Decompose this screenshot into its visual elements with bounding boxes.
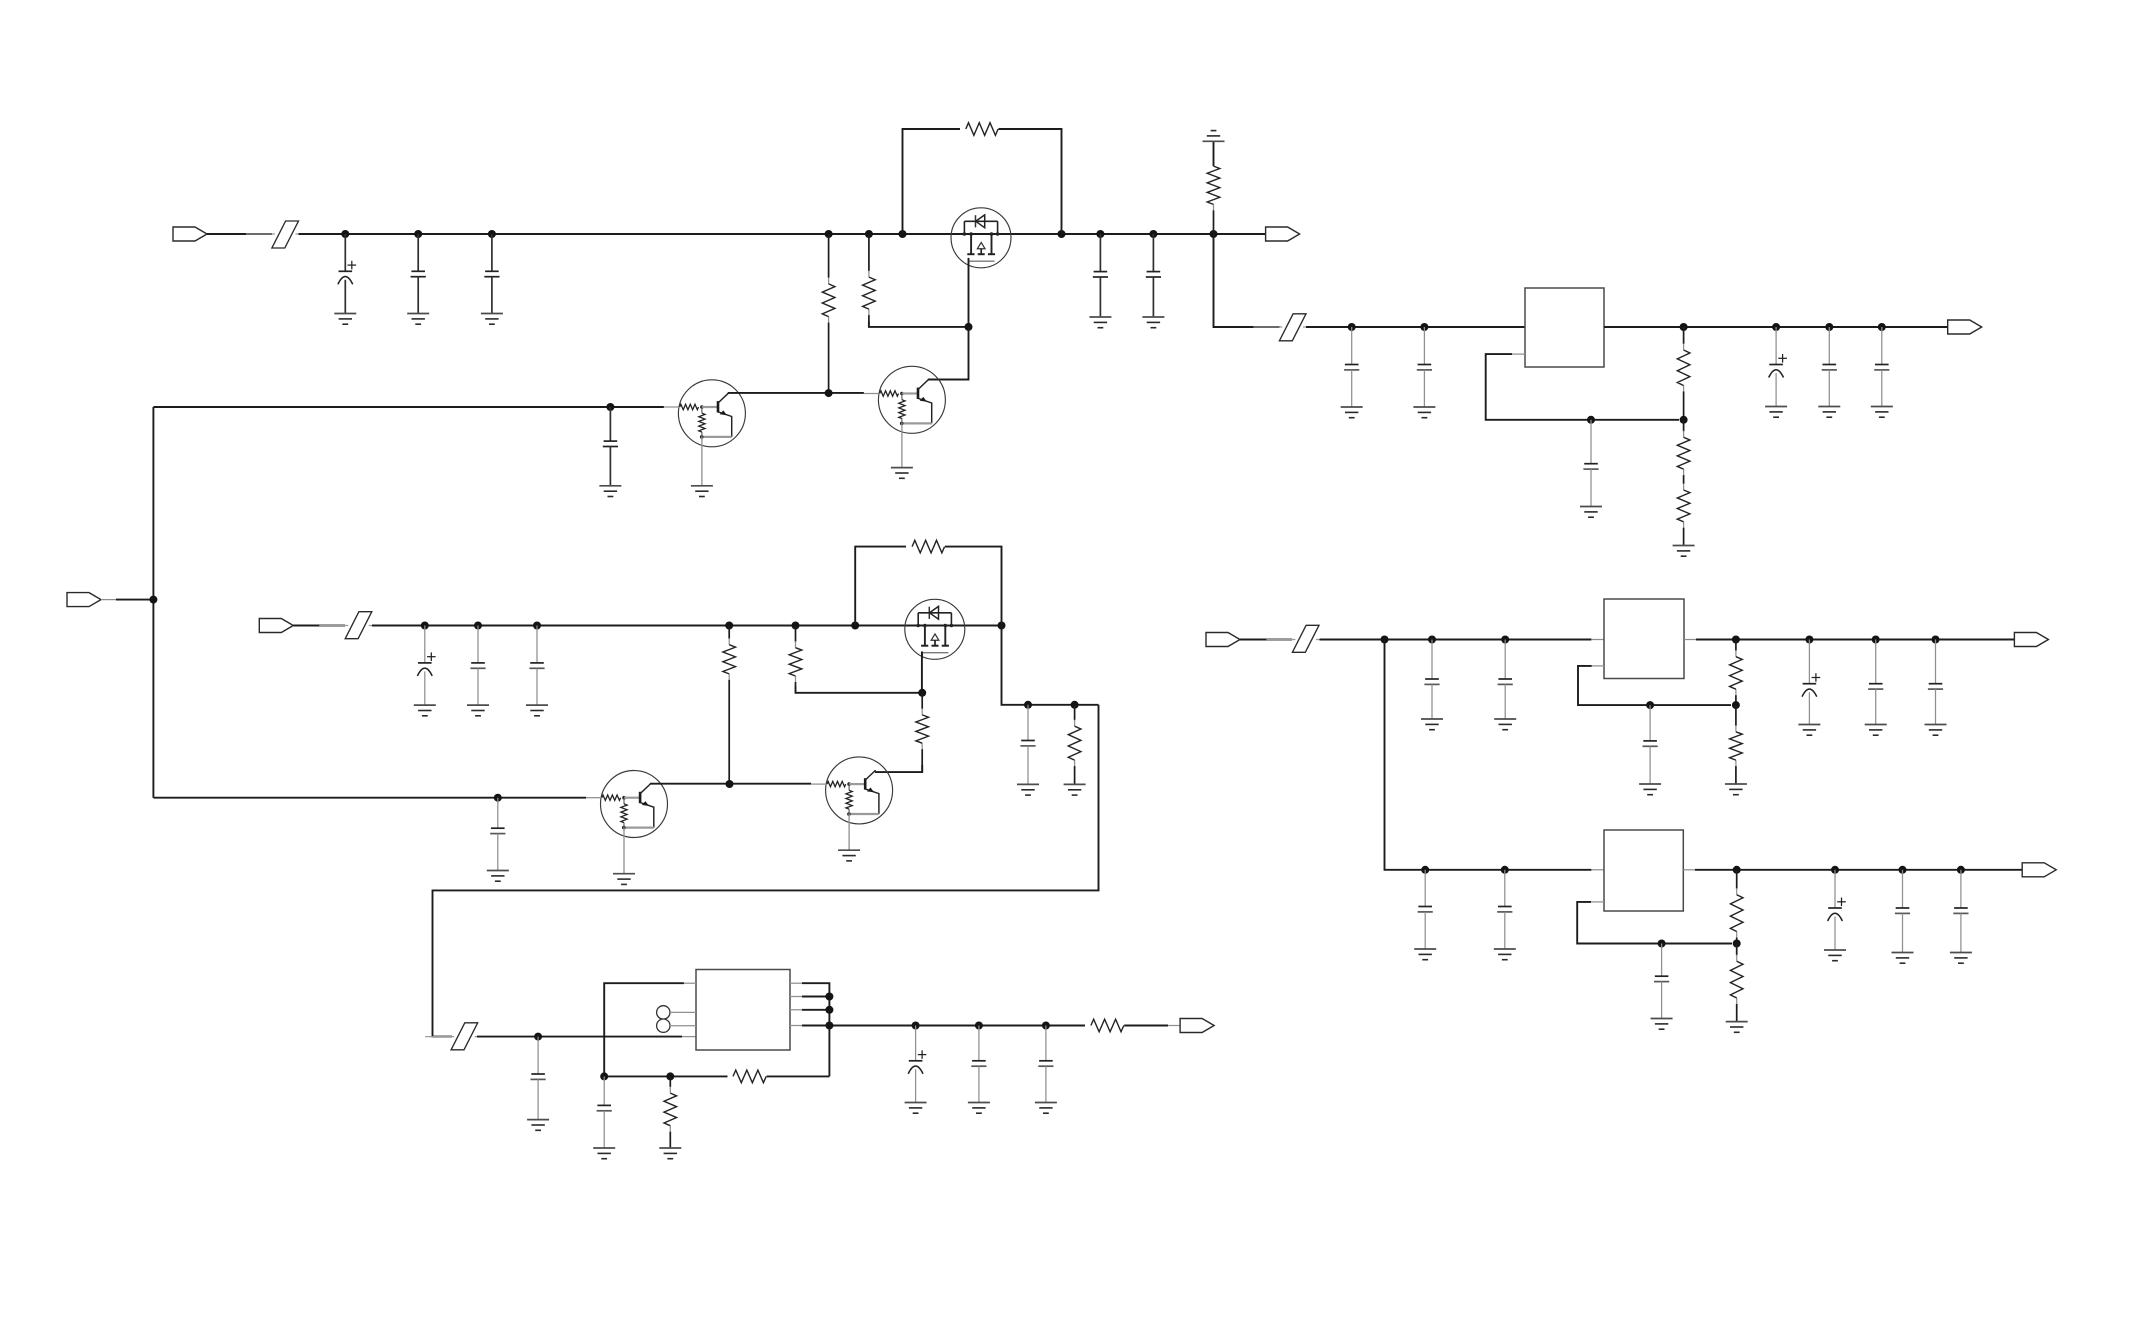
junction LED out A (912, 1022, 920, 1030)
pin stub U2 pin1 right (790, 982, 802, 984)
wire LED input rail (477, 1036, 682, 1038)
wire feedback loop 2 right (945, 547, 1002, 626)
wire U3 feedback (1578, 666, 1731, 705)
resistor R13 (664, 1076, 677, 1148)
wire mid out drop (1002, 626, 1099, 705)
resistor R10 (789, 626, 802, 687)
capacitor C3 (484, 234, 499, 314)
ground R13 ground (659, 1148, 681, 1159)
capacitor C2 (411, 234, 426, 314)
capacitor C32 (polarized) (1828, 870, 1846, 950)
junction divider2 mid (1732, 701, 1740, 709)
junction mid rail D (725, 622, 733, 630)
ground C13 ground (414, 705, 436, 716)
resistor R4 (divider top) (1677, 327, 1690, 420)
capacitor C26 (polarized) (1802, 640, 1820, 725)
ground C7 ground (1341, 407, 1363, 418)
capacitor C10 (polarized) (1769, 327, 1787, 407)
junction divider3 mid (1733, 940, 1741, 948)
ground C14 ground (467, 705, 489, 716)
junction LED out B (975, 1022, 983, 1030)
capacitor C23 (1424, 640, 1439, 720)
capacitor C11 (1822, 327, 1837, 407)
junction fb cap node 3 (1658, 940, 1666, 948)
wire fb to pin column (767, 1075, 830, 1077)
junction rail A2 (414, 230, 422, 238)
ground divider3 ground (1726, 1022, 1748, 1033)
regulator U3 (1604, 599, 1684, 679)
ground R12 ground (1064, 784, 1086, 795)
wire wrap wire to LED circuit (433, 705, 1099, 1037)
junction divider2 top (1732, 636, 1740, 644)
pin stub U2 pin2 right (790, 996, 802, 998)
junction reg2-in A (1381, 636, 1389, 644)
resistor R11 (gate series) (916, 693, 929, 772)
port P6 LED output (1180, 1019, 1214, 1033)
capacitor C18 (531, 1037, 546, 1120)
wire enable net vertical (152, 407, 154, 798)
Q1 emitter lead (701, 436, 703, 486)
wire enable base wire (153, 406, 664, 408)
capacitor C1 (polarized bulk) (338, 234, 356, 314)
port P8 VOUT3 (2014, 633, 2048, 647)
junction reg3-in A (1421, 866, 1429, 874)
junction gate node (965, 323, 973, 331)
capacitor C7 (1344, 327, 1359, 407)
capacitor C4 (603, 407, 618, 486)
ground divider2 ground (1725, 784, 1747, 795)
ground C16 ground (487, 871, 509, 882)
resistor R6 (divider bottom a) (1677, 420, 1690, 480)
ground Q1 ground (691, 486, 713, 497)
junction out B (1149, 230, 1157, 238)
ground Q2 ground (891, 468, 913, 479)
capacitor C31 (feedback) (1654, 944, 1669, 1019)
capacitor C20 (polarized) (908, 1026, 926, 1103)
transistor Q4 (digital BJT with base resistors) (811, 757, 893, 824)
pin stub U2 input pin (682, 1036, 696, 1038)
PMOS transistor M1 load switch (951, 208, 1011, 268)
ground Q4 ground (838, 850, 860, 861)
wire VIN3 to bus entry (1240, 639, 1292, 641)
junction feedback right (1058, 230, 1066, 238)
junction divider mid node (1680, 416, 1688, 424)
junction out A (1096, 230, 1104, 238)
junction reg-out A (1772, 323, 1780, 331)
pin stub U2 pin3 right (790, 1009, 802, 1011)
wire branch to regulator (1214, 234, 1280, 327)
resistor R16 (divider top) (1730, 640, 1743, 706)
ground C31 ground (1651, 1019, 1673, 1030)
capacitor C15 (529, 626, 544, 706)
port P7 VIN3 (1206, 633, 1240, 647)
port P4 enable input (67, 593, 101, 607)
wire gate node to Q2 collector (928, 327, 969, 380)
junction gate node 2 (918, 689, 926, 697)
pin stub P6 stub (1168, 1025, 1180, 1027)
wire feedback loop 2 left (855, 547, 906, 626)
junction rail B1 (825, 230, 833, 238)
junction collector node 2 (726, 780, 734, 788)
ground Q3 ground (613, 874, 635, 885)
capacitor C14 (470, 626, 485, 706)
wire mid rail through PMOS (905, 625, 1002, 627)
wire reg3 output rail (1695, 869, 2022, 871)
resistor R5 (gate-source) (966, 123, 998, 136)
pin stub U4 input pin (1591, 869, 1604, 871)
wire enable port wire (116, 599, 153, 601)
junction collector node (825, 389, 833, 397)
ground C30 ground (1494, 949, 1516, 960)
junction reg2-in C (1501, 636, 1509, 644)
junction divider node top (1680, 323, 1688, 331)
ground C21 ground (968, 1103, 990, 1114)
junction out C (1210, 230, 1218, 238)
wire U4 feedback (1577, 902, 1732, 944)
junction fb cap node (1587, 416, 1595, 424)
capacitor C29 (1418, 870, 1433, 949)
ground C5 ground (1089, 317, 1111, 328)
ground C4 ground (599, 486, 621, 497)
wire M1 gate wire (968, 258, 970, 327)
wire Q3 collector wire (650, 783, 811, 785)
wire U2 pin1 wire (802, 983, 829, 1076)
wire main input rail (299, 233, 952, 235)
capacitor C30 (1497, 870, 1512, 949)
resistor R15 (series out) (1091, 1019, 1124, 1032)
capacitor C9 (feedback) (1583, 420, 1598, 507)
junction fb node A (600, 1072, 608, 1080)
junction LED out C (1042, 1022, 1050, 1030)
junction reg2-out C (1932, 636, 1940, 644)
transistor Q3 (digital BJT with base resistors) (586, 771, 668, 838)
resistor R9 (723, 626, 736, 785)
capacitor C25 (feedback) (1643, 705, 1658, 784)
resistor R1 (822, 234, 835, 393)
ground C34 ground (1950, 953, 1972, 964)
junction reg2-out A (1805, 636, 1813, 644)
junction feedback left (899, 230, 907, 238)
junction reg3-out B (1899, 866, 1907, 874)
port P3 VOUT2 (1948, 320, 1982, 334)
resistor R3 (pull-up) (1207, 166, 1220, 234)
junction reg-out B (1825, 323, 1833, 331)
regulator U1 (1525, 288, 1604, 367)
wire regulator input rail (1306, 326, 1525, 328)
junction reg3-in B (1501, 866, 1509, 874)
junction mid rail B (474, 622, 482, 630)
wire R11 to Q4 collector (875, 765, 922, 772)
junction reg3-out A (1831, 866, 1839, 874)
ground C17 ground (1017, 784, 1039, 795)
pin stub U2 pin4 right (790, 1025, 802, 1027)
wire LED out rail (802, 1025, 1085, 1027)
junction pin2 node (825, 993, 833, 1001)
wire R15 to port (1124, 1025, 1168, 1027)
capacitor C22 (1038, 1026, 1053, 1103)
pin stub U3 feedback pin (1592, 665, 1604, 667)
ground C8 ground (1413, 407, 1435, 418)
resistor R7 (divider bottom b) (1677, 480, 1690, 546)
resistor R19 (divider bottom) (1730, 944, 1743, 1022)
wire regulator output rail (1604, 326, 1948, 328)
pin stub U4 feedback pin (1591, 901, 1604, 903)
wire U2 pin3 wire (802, 1009, 829, 1011)
capacitor C12 (1874, 327, 1889, 407)
ground C22 ground (1035, 1103, 1057, 1114)
inverted ground R3 rail symbol (1203, 131, 1225, 142)
bus entry input bus slash (246, 221, 325, 248)
transistor Q2 (digital BJT with base resistors) (864, 366, 946, 433)
capacitor C21 (971, 1026, 986, 1103)
junction enable node C1b (606, 403, 614, 411)
ground C20 ground (905, 1103, 927, 1114)
ground C27 ground (1865, 725, 1887, 736)
pin stub U3 input pin (1591, 639, 1604, 641)
wire R3 upper lead (1213, 141, 1215, 166)
wire feedback loop R5 (903, 129, 961, 234)
regulator U4 (1604, 830, 1683, 911)
ground C28 ground (1925, 725, 1947, 736)
pin stub P4 pin (101, 599, 116, 601)
ground C2 ground (407, 314, 429, 325)
LED driver U2 (696, 970, 790, 1051)
capacitor C28 (1928, 640, 1943, 725)
junction reg2-out B (1872, 636, 1880, 644)
resistor R17 (divider bottom) (1730, 705, 1743, 784)
wire R2 to gate node (869, 321, 969, 327)
capacitor C13 (polarized) (417, 626, 435, 706)
capacitor C6 (1146, 234, 1161, 317)
capacitor C17 (1020, 705, 1035, 785)
wire branch to reg3 (1385, 640, 1592, 870)
junction enable node 2 (494, 794, 502, 802)
wire VIN to bus entry (207, 233, 272, 235)
junction reg2-in B (1428, 636, 1436, 644)
bus entry regulator input slash (1253, 314, 1332, 341)
port P9 VOUT4 (2022, 863, 2056, 877)
ground C10 ground (1765, 407, 1787, 418)
ground C24 ground (1494, 719, 1516, 730)
wire U2 feedback bottom (604, 1072, 727, 1076)
wire U1 feedback (1486, 354, 1679, 420)
wire feedback loop right (999, 129, 1062, 234)
wire enable base wire 2 (153, 797, 586, 799)
bus entry LED input slash (425, 1023, 504, 1050)
resistor R18 (divider top) (1730, 870, 1743, 944)
ground C15 ground (526, 705, 548, 716)
port P5 VIN2 (259, 619, 293, 633)
pin stub U2 pin1 left (684, 982, 696, 984)
capacitor C34 (1953, 870, 1968, 953)
ground C3 ground (481, 314, 503, 325)
port P1 VIN (173, 227, 207, 241)
indicator circles (LED bi-color) (657, 1006, 670, 1033)
ground C12 ground (1871, 407, 1893, 418)
wire M2 gate wire (921, 651, 923, 692)
junction pin3 node (825, 1006, 833, 1014)
junction mid fb right / out (998, 622, 1006, 630)
PMOS transistor M2 load switch (905, 599, 965, 659)
ground divider ground (1673, 546, 1695, 557)
capacitor C5 (1093, 234, 1108, 317)
ground C33 ground (1892, 953, 1914, 964)
junction mid rail E (792, 622, 800, 630)
capacitor C33 (1895, 870, 1910, 953)
junction rail A3 (488, 230, 496, 238)
junction LED rail A (534, 1033, 542, 1041)
junction reg-out C (1878, 323, 1886, 331)
resistor R14 (feedback) (733, 1070, 766, 1083)
Q4 emitter lead (848, 813, 850, 850)
Q2 emitter lead (901, 423, 903, 468)
capacitor C8 (1417, 327, 1432, 407)
junction reg-in A (1348, 323, 1356, 331)
ground C29 ground (1414, 949, 1436, 960)
junction mid rail A (421, 622, 429, 630)
junction mid out B (1071, 701, 1079, 709)
capacitor C27 (1868, 640, 1883, 725)
wire U2 loop left (604, 983, 684, 1072)
bus entry input bus slash 3 (1266, 625, 1345, 652)
junction reg-in B (1420, 323, 1428, 331)
junction fb node B (666, 1072, 674, 1080)
transistor Q1 (digital BJT with base resistors) (664, 380, 746, 447)
pin stub U1 feedback pin (1512, 353, 1525, 355)
junction fb cap node 2 (1646, 701, 1654, 709)
ground C18 ground (527, 1120, 549, 1131)
wire U2 pin2 wire (802, 996, 829, 998)
wire reg2 output rail (1696, 639, 2014, 641)
wire rail through PMOS to output (951, 233, 1266, 235)
ground C19 ground (593, 1148, 615, 1159)
junction mid rail C (533, 622, 541, 630)
ground C26 ground (1798, 725, 1820, 736)
wire mid rail (372, 625, 905, 627)
junction rail A1 (341, 230, 349, 238)
pin stub LED1 lead (670, 1011, 696, 1013)
resistor R8 (gate-source 2) (912, 540, 945, 553)
junction mid out A (1024, 701, 1032, 709)
pin stub U4 output pin (1683, 869, 1695, 871)
port P2 VOUT1 (1266, 227, 1300, 241)
ground C25 ground (1639, 784, 1661, 795)
resistor R12 (1068, 705, 1081, 785)
junction mid fb left (851, 622, 859, 630)
ground C23 ground (1421, 719, 1443, 730)
resistor R2 (863, 234, 876, 321)
pin stub LED2 lead (670, 1025, 696, 1027)
wire reg2 input rail (1320, 639, 1592, 641)
pin stub U3 output pin (1684, 639, 1696, 641)
ground C6 ground (1142, 317, 1164, 328)
bus entry input bus slash 2 (319, 612, 398, 639)
wire R10 to gate node 2 (796, 686, 923, 693)
ground C32 ground (1824, 950, 1846, 961)
junction reg3-out C (1957, 866, 1965, 874)
junction pin4 node (825, 1022, 833, 1030)
ground C11 ground (1818, 407, 1840, 418)
wire Q1 collector wire (728, 392, 864, 394)
capacitor C24 (1498, 640, 1513, 720)
ground C1 ground (334, 314, 356, 325)
ground C9 ground (1580, 507, 1602, 518)
junction rail B2 (865, 230, 873, 238)
wire VIN2 to bus entry (293, 625, 345, 627)
capacitor C16 (490, 798, 505, 871)
Q3 emitter lead (623, 827, 625, 874)
junction divider3 top (1733, 866, 1741, 874)
capacitor C19 (597, 1076, 612, 1148)
junction enable junction (149, 596, 157, 604)
